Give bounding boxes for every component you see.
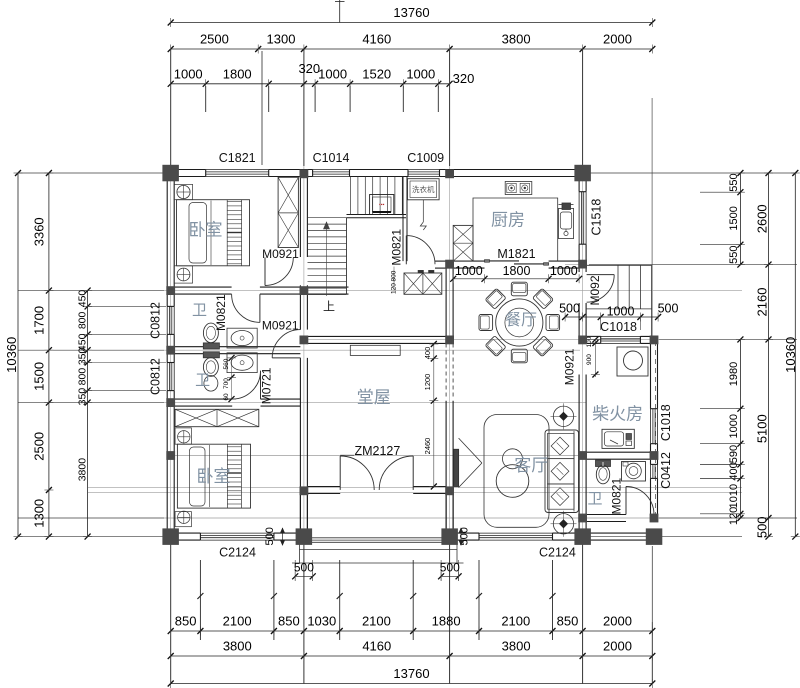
svg-text:1000: 1000 [550, 264, 578, 278]
svg-text:1010: 1010 [728, 484, 740, 508]
svg-text:4160: 4160 [362, 32, 391, 47]
svg-text:2000: 2000 [603, 614, 632, 629]
svg-text:M1821: M1821 [497, 247, 535, 261]
svg-text:550: 550 [728, 246, 740, 264]
svg-text:1000: 1000 [406, 66, 435, 81]
svg-text:柴火房: 柴火房 [592, 405, 643, 424]
svg-text:3360: 3360 [31, 217, 46, 246]
svg-text:1700: 1700 [31, 306, 46, 335]
svg-text:550: 550 [728, 173, 740, 191]
svg-text:1300: 1300 [267, 32, 296, 47]
svg-text:堂屋: 堂屋 [357, 388, 391, 407]
svg-text:800: 800 [77, 368, 89, 386]
svg-text:1030: 1030 [307, 614, 336, 629]
svg-text:13760: 13760 [393, 5, 429, 20]
svg-text:卫: 卫 [192, 302, 207, 319]
svg-text:C1014: C1014 [313, 151, 350, 165]
svg-text:洗衣机: 洗衣机 [412, 184, 435, 194]
svg-text:2600: 2600 [755, 204, 770, 233]
svg-text:1000: 1000 [455, 264, 483, 278]
svg-text:M0921: M0921 [262, 319, 299, 333]
svg-text:1980: 1980 [728, 362, 740, 386]
svg-text:M0821: M0821 [390, 229, 404, 266]
svg-text:上: 上 [323, 300, 335, 314]
svg-text:3800: 3800 [223, 639, 252, 654]
svg-text:3800: 3800 [502, 639, 531, 654]
svg-text:C0812: C0812 [149, 358, 163, 395]
svg-text:1520: 1520 [362, 66, 391, 81]
svg-text:1800: 1800 [223, 66, 252, 81]
svg-text:2460: 2460 [423, 438, 432, 455]
svg-text:2500: 2500 [200, 32, 229, 47]
svg-text:C1018: C1018 [659, 404, 673, 441]
svg-text:500: 500 [755, 516, 770, 538]
svg-text:400: 400 [728, 462, 740, 480]
svg-text:3800: 3800 [77, 458, 89, 482]
svg-text:2000: 2000 [603, 32, 632, 47]
svg-text:C2124: C2124 [539, 546, 576, 560]
svg-text:C2124: C2124 [219, 546, 256, 560]
svg-text:M0921: M0921 [563, 348, 577, 385]
svg-text:450: 450 [77, 290, 89, 308]
svg-text:客厅: 客厅 [514, 456, 548, 475]
svg-text:2000: 2000 [603, 639, 632, 654]
svg-text:M0721: M0721 [260, 367, 274, 404]
svg-text:400: 400 [423, 347, 432, 360]
svg-text:560: 560 [223, 358, 230, 369]
svg-text:800: 800 [391, 270, 398, 281]
svg-text:1000: 1000 [318, 66, 347, 81]
svg-text:500: 500 [658, 302, 679, 316]
svg-text:350: 350 [77, 347, 89, 365]
svg-text:C1009: C1009 [407, 151, 444, 165]
svg-text:1300: 1300 [31, 499, 46, 528]
svg-text:500: 500 [559, 302, 580, 316]
svg-text:C1821: C1821 [219, 151, 256, 165]
svg-text:2100: 2100 [223, 614, 252, 629]
svg-text:5100: 5100 [755, 414, 770, 443]
svg-text:餐厅: 餐厅 [505, 311, 537, 329]
svg-text:C1018: C1018 [600, 320, 637, 334]
svg-text:500: 500 [264, 527, 276, 545]
svg-text:1200: 1200 [423, 374, 432, 391]
svg-text:1800: 1800 [503, 264, 531, 278]
svg-text:1880: 1880 [432, 614, 461, 629]
svg-text:M0821: M0821 [610, 478, 624, 515]
svg-text:320: 320 [298, 61, 320, 76]
svg-text:C0412: C0412 [659, 452, 673, 489]
svg-text:卫: 卫 [195, 372, 210, 389]
svg-text:900: 900 [586, 354, 593, 365]
svg-text:ZM2127: ZM2127 [354, 444, 400, 458]
svg-text:500: 500 [294, 561, 314, 575]
svg-text:1000: 1000 [728, 414, 740, 438]
svg-text:120: 120 [728, 507, 740, 525]
svg-text:60: 60 [223, 393, 230, 401]
svg-text:1500: 1500 [728, 206, 740, 230]
svg-text:1000: 1000 [174, 66, 203, 81]
svg-text:3800: 3800 [502, 32, 531, 47]
svg-text:M0921: M0921 [262, 247, 299, 261]
svg-text:1000: 1000 [607, 304, 635, 318]
svg-text:350: 350 [77, 388, 89, 406]
svg-text:C1518: C1518 [590, 199, 604, 236]
svg-text:M0821: M0821 [214, 294, 228, 331]
svg-text:2100: 2100 [501, 614, 530, 629]
svg-text:850: 850 [557, 614, 579, 629]
svg-text:700: 700 [223, 378, 230, 389]
svg-text:M092: M092 [588, 275, 602, 305]
svg-text:13760: 13760 [393, 666, 429, 681]
svg-text:850: 850 [278, 614, 300, 629]
svg-text:2160: 2160 [755, 288, 770, 317]
svg-text:4160: 4160 [362, 639, 391, 654]
svg-text:1500: 1500 [31, 362, 46, 391]
svg-text:C0812: C0812 [149, 302, 163, 339]
svg-text:500: 500 [440, 561, 460, 575]
svg-text:卧室: 卧室 [189, 221, 223, 240]
svg-text:850: 850 [175, 614, 197, 629]
svg-text:厨房: 厨房 [491, 211, 525, 230]
svg-text:卫: 卫 [587, 491, 602, 508]
svg-text:320: 320 [453, 71, 475, 86]
svg-text:2500: 2500 [31, 432, 46, 461]
svg-text:2100: 2100 [362, 614, 391, 629]
svg-text:▪▪▪: ▪▪▪ [379, 202, 385, 208]
svg-text:590: 590 [728, 445, 740, 463]
svg-text:120: 120 [391, 283, 398, 294]
svg-text:10360: 10360 [783, 337, 798, 373]
svg-text:10360: 10360 [4, 337, 19, 373]
svg-text:卧室: 卧室 [197, 467, 231, 486]
svg-text:800: 800 [77, 311, 89, 329]
